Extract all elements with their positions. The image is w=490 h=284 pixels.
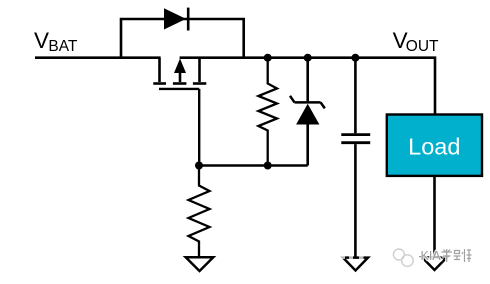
svg-text:KIA: KIA (421, 249, 442, 263)
wire gate to bottom node (198, 89, 200, 166)
junction dot C (351, 54, 359, 62)
ground G3 (422, 257, 447, 270)
junction dot E (264, 162, 272, 170)
wire bottom node (199, 164, 308, 167)
load block (387, 115, 482, 176)
transistor Q1 (153, 58, 206, 89)
svg-text:V: V (34, 28, 49, 53)
junction dot A (264, 54, 272, 62)
junction dot D (195, 162, 203, 170)
svg-text:OUT: OUT (406, 38, 439, 55)
svg-text:Load: Load (408, 133, 460, 159)
resistor R2 (258, 58, 277, 166)
wire VOUT rail (180, 58, 435, 114)
svg-text:BAT: BAT (48, 38, 78, 55)
resistor R1 (189, 166, 210, 258)
wire diode bypass loop (121, 19, 244, 58)
zener diode Z1 (290, 58, 325, 166)
ground G2 (343, 258, 368, 271)
junction dot B (304, 54, 312, 62)
watermark logo (393, 249, 413, 266)
diode D1 (164, 8, 188, 31)
node VBAT label (34, 28, 78, 55)
wire VBAT input (35, 56, 161, 59)
node VOUT label (393, 28, 439, 55)
watermark speckle on G2 (340, 256, 364, 259)
capacitor C1 (341, 58, 370, 257)
wire load to ground (433, 176, 436, 257)
ground G1 (186, 257, 214, 271)
watermark text (421, 249, 472, 263)
